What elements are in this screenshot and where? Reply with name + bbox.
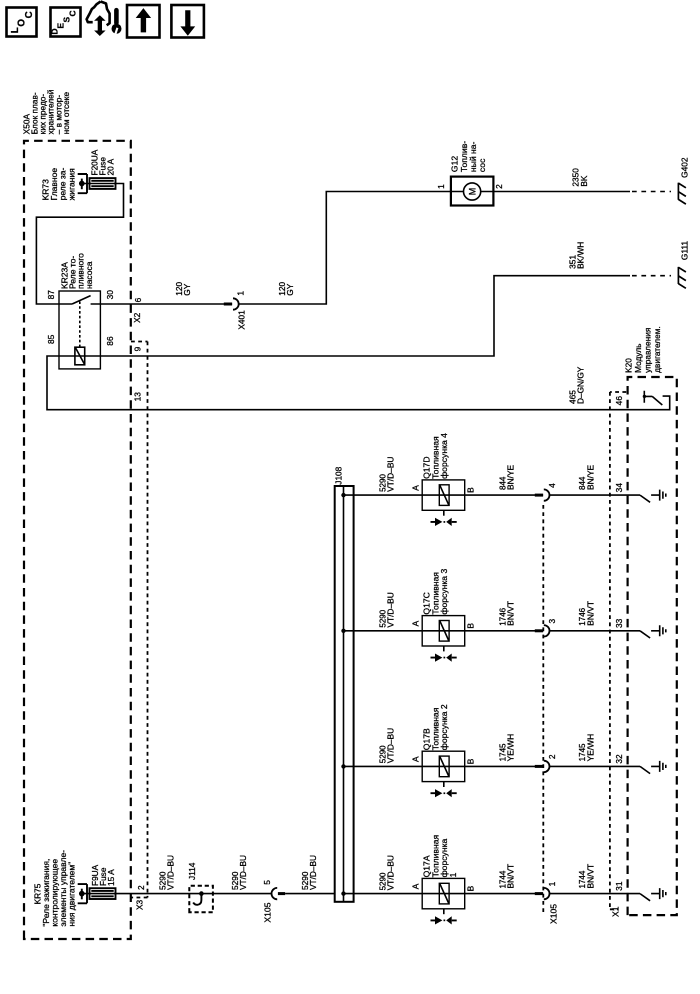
splice J114 pigtail <box>193 894 201 905</box>
svg-text:VT/D–BU: VT/D–BU <box>386 855 396 890</box>
svg-text:A: A <box>410 485 420 491</box>
svg-text:30: 30 <box>105 290 115 300</box>
svg-text:15 A: 15 A <box>106 869 116 886</box>
icon arrow previous <box>127 5 160 38</box>
svg-text:BN/VT: BN/VT <box>586 601 596 626</box>
relay KR23A box <box>59 291 100 369</box>
wire 1745 YE/WH to K20 <box>550 765 641 767</box>
svg-text:46: 46 <box>614 396 624 406</box>
wire 5290 VT/D-BU J108 to Q17A <box>344 893 544 895</box>
svg-text:VT/D–BU: VT/D–BU <box>386 592 396 627</box>
injector Q17D box <box>422 480 465 510</box>
svg-text:85: 85 <box>46 334 56 344</box>
svg-text:управления: управления <box>642 328 652 373</box>
svg-text:X2: X2 <box>132 312 142 323</box>
injector Q17C box <box>422 616 465 646</box>
svg-text:2: 2 <box>547 754 557 759</box>
relay KR23A contact blade <box>59 296 100 304</box>
svg-text:13: 13 <box>133 392 143 402</box>
junction on J108 for Q17A <box>341 891 345 895</box>
icon arrow next <box>171 5 204 38</box>
injector Q17D nozzle symbol <box>443 510 445 515</box>
relay KR23A coil <box>75 347 85 365</box>
svg-text:X105: X105 <box>549 904 559 924</box>
svg-text:жигания: жигания <box>66 168 76 201</box>
svg-text:A: A <box>410 620 420 626</box>
svg-text:1: 1 <box>448 872 458 877</box>
svg-text:YE/WH: YE/WH <box>586 734 596 761</box>
svg-text:B: B <box>465 623 475 629</box>
relay KR73 contact cradle <box>78 174 87 193</box>
icon DESC button <box>51 8 81 37</box>
svg-text:9: 9 <box>133 346 143 351</box>
svg-text:G402: G402 <box>680 157 690 178</box>
icon vehicle with wrench <box>87 2 122 37</box>
injector Q17C coil <box>439 621 449 642</box>
icon LOC button <box>7 8 37 37</box>
svg-text:1: 1 <box>436 184 446 189</box>
svg-text:33: 33 <box>614 618 624 628</box>
wire through pump <box>451 191 494 193</box>
svg-text:форсунка 2: форсунка 2 <box>439 704 449 750</box>
splice J114 dashed box <box>189 886 213 913</box>
engine control module K20 dashed box <box>628 377 677 915</box>
svg-text:L: L <box>10 27 21 33</box>
svg-text:2: 2 <box>494 184 504 189</box>
svg-text:D–GN/GY: D–GN/GY <box>575 366 585 404</box>
fuse F9UA <box>90 888 116 899</box>
svg-text:сос: сос <box>477 158 487 172</box>
wire 120 GY X401 to fuel pump <box>239 192 451 305</box>
svg-text:M: M <box>467 188 477 196</box>
svg-text:1: 1 <box>547 881 557 886</box>
injector Q17B nozzle symbol <box>443 782 445 787</box>
svg-text:VT/D–BU: VT/D–BU <box>166 855 176 890</box>
svg-text:VT/D–BU: VT/D–BU <box>238 855 248 890</box>
wire 2350 BK pump to ground <box>493 191 630 193</box>
splice pack J108 <box>335 486 354 902</box>
svg-text:X105: X105 <box>262 902 272 922</box>
svg-text:B: B <box>465 885 475 891</box>
svg-text:B: B <box>465 487 475 493</box>
K20 internal ground for injector Q17D <box>640 490 666 503</box>
svg-text:VT/D–BU: VT/D–BU <box>308 855 318 890</box>
svg-text:O: O <box>17 19 28 27</box>
svg-text:GY: GY <box>182 283 192 295</box>
svg-text:VT/D–BU: VT/D–BU <box>386 728 396 763</box>
injector Q17A box <box>422 878 465 908</box>
wire X105 to splice pack <box>285 893 335 895</box>
svg-text:форсунка 4: форсунка 4 <box>439 433 449 479</box>
svg-text:Модуль: Модуль <box>633 343 643 372</box>
connector X105 dotted line <box>542 502 544 912</box>
junction on J108 for Q17B <box>341 764 345 768</box>
K20 internal ground for injector Q17A <box>640 888 666 901</box>
svg-text:1: 1 <box>235 291 245 296</box>
svg-text:86: 86 <box>105 336 115 346</box>
inline connector X105 pin 3 <box>535 629 543 632</box>
svg-text:BN/YE: BN/YE <box>506 464 516 490</box>
injector Q17B coil <box>439 756 449 777</box>
inline connector X401 <box>224 303 232 306</box>
svg-text:форсунка: форсунка <box>439 838 449 877</box>
connector X1 dotted line <box>610 392 626 909</box>
svg-text:34: 34 <box>614 483 624 493</box>
wire 351 BK/WH relay pin 86 to G111 <box>59 276 630 356</box>
svg-text:GY: GY <box>285 283 295 295</box>
junction on J108 for Q17D <box>341 493 345 497</box>
K20 internal ground for injector Q17C <box>640 625 666 638</box>
relay KR75 contact cradle <box>78 884 87 903</box>
fuel pump motor circle <box>464 183 481 200</box>
ground G402 <box>678 183 686 204</box>
svg-text:BK/WH: BK/WH <box>575 242 585 269</box>
svg-text:C: C <box>24 11 35 18</box>
svg-text:6: 6 <box>133 297 143 302</box>
relay KR23A actuator dashed link <box>79 302 81 348</box>
inline connector X105 pin 5 <box>272 888 278 899</box>
wire 844 BN/YE to K20 <box>550 494 641 496</box>
svg-text:87: 87 <box>46 290 56 300</box>
svg-text:ния двигателем": ния двигателем" <box>67 862 77 927</box>
svg-text:BN/VT: BN/VT <box>586 864 596 889</box>
injector Q17D coil <box>439 485 449 506</box>
svg-text:VT/D–BU: VT/D–BU <box>386 457 396 492</box>
svg-text:A: A <box>410 883 420 889</box>
injector Q17B box <box>422 751 465 781</box>
svg-text:32: 32 <box>614 754 624 764</box>
svg-text:C: C <box>67 10 77 16</box>
svg-text:A: A <box>410 756 420 762</box>
wire 1744 BN/VT to K20 <box>550 893 641 895</box>
svg-text:5: 5 <box>262 880 272 885</box>
K20 internal ground for injector Q17B <box>640 761 666 774</box>
inline connector X105 pin 2 <box>535 765 543 768</box>
svg-text:BN/VT: BN/VT <box>506 601 516 626</box>
svg-text:BN/VT: BN/VT <box>506 864 516 889</box>
svg-text:ном отсеке: ном отсеке <box>61 91 71 134</box>
wire 5290 VT/D-BU J108 to Q17D <box>344 494 544 496</box>
wire 120 GY relay pin 30 to X401 <box>100 303 232 305</box>
wire KR73 fuse to relay KR23A pin 87 <box>36 184 123 305</box>
inline connector X105 pin 1 <box>535 892 543 895</box>
svg-text:X1: X1 <box>611 906 621 917</box>
injector Q17A coil <box>439 883 449 904</box>
svg-text:2: 2 <box>136 885 146 890</box>
fuse block X50A dashed box <box>24 141 131 939</box>
ground G111 <box>678 267 686 288</box>
wire 465 D-GN/GY relay pin 85 to K20 <box>47 356 670 410</box>
svg-text:насоса: насоса <box>84 261 94 289</box>
svg-text:J114: J114 <box>187 862 197 880</box>
svg-text:BK: BK <box>579 175 589 187</box>
wire 5290 VT/D-BU fuse F9UA to splice pack J108 <box>82 893 272 895</box>
svg-text:J108: J108 <box>334 466 344 484</box>
svg-text:X3: X3 <box>135 899 145 910</box>
K20 pin 46 internal contact <box>644 391 662 405</box>
svg-text:BN/YE: BN/YE <box>586 464 596 490</box>
junction on J108 for Q17C <box>341 629 345 633</box>
svg-text:двигателем.: двигателем. <box>652 326 662 373</box>
svg-text:форсунка 3: форсунка 3 <box>439 569 449 615</box>
inline connector X105 pin 4 <box>535 494 543 497</box>
svg-text:31: 31 <box>614 881 624 891</box>
wire 5290 VT/D-BU J108 to Q17B <box>344 765 544 767</box>
fuse F20UA <box>90 178 116 189</box>
injector Q17A nozzle symbol <box>443 909 445 914</box>
svg-text:20 A: 20 A <box>106 158 116 175</box>
svg-text:3: 3 <box>547 619 557 624</box>
svg-text:YE/WH: YE/WH <box>506 734 516 761</box>
wire 1746 BN/VT to K20 <box>550 630 641 632</box>
wire 5290 VT/D-BU J108 to Q17C <box>344 630 544 632</box>
svg-text:X401: X401 <box>236 310 246 330</box>
svg-text:K20: K20 <box>623 358 633 373</box>
svg-text:G111: G111 <box>680 241 690 260</box>
fuel pump G12 box <box>451 177 494 206</box>
svg-text:4: 4 <box>547 483 557 488</box>
connector X2/X3 dotted line <box>131 342 148 898</box>
svg-text:B: B <box>465 758 475 764</box>
injector Q17C nozzle symbol <box>443 646 445 651</box>
